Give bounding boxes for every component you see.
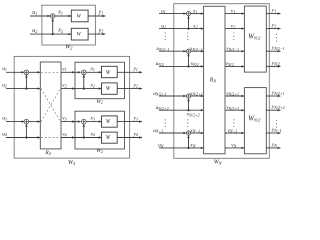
wire v3: R4 to sub-box [61,121,75,123]
wire row 6 up to summer of WN [188,98,190,110]
svg-text:y2: y2 [133,82,138,88]
svg-text:vN/2−1: vN/2−1 [226,46,239,52]
svg-text:vN−1: vN−1 [228,128,238,134]
wire u4 input of WN [159,65,204,67]
vertical dots column v upper [233,32,234,40]
svg-text:W: W [77,14,82,20]
svg-text:R4: R4 [44,150,50,156]
block RN permutation box [204,6,225,154]
svg-text:W: W [106,119,111,125]
wire y1 output of W4 [117,71,142,73]
svg-text:WN/2: WN/2 [248,33,261,41]
wire y3 output of WN [266,50,280,52]
svg-text:xN/2−1: xN/2−1 [189,46,203,52]
wire x1: summer to RN [191,13,204,15]
svg-text:uN/2+1: uN/2+1 [153,91,166,97]
wire u7 input of WN [159,132,186,134]
svg-text:yN/2: yN/2 [271,60,280,66]
svg-text:y3: y3 [133,115,138,121]
summer on row 7 of WN [186,131,190,135]
block W2 outer box [42,5,96,45]
wire y1 output [88,15,105,17]
vertical dots column y upper [276,34,277,42]
wire v1 to summer S3 [75,71,81,73]
wire row 8 up to summer of WN [188,135,190,148]
block W (lower) of W2 [71,28,88,40]
wire v3 to summer S4 [75,121,81,123]
wire x1 to W box [86,71,102,73]
svg-text:u2: u2 [161,23,166,29]
node junction u2 of W4 [25,88,27,90]
block W box 2 of W4 [102,83,118,94]
svg-text:y1: y1 [98,10,104,16]
block W2 sub-box upper of W4 [75,62,125,98]
svg-text:yN: yN [271,142,277,148]
wire y6 output of WN [266,109,280,111]
svg-text:v2: v2 [62,83,66,89]
svg-text:v4: v4 [62,132,66,138]
block W box 3 of W4 [102,116,118,127]
svg-text:x1: x1 [57,10,63,16]
block WN outer box [174,4,269,159]
svg-text:W4: W4 [68,160,75,166]
wire v1: RN to WN/2 box [225,13,244,15]
summer S1 of W2 [50,14,55,19]
wire v2: RN to WN/2 box [225,28,244,30]
block W box 1 of W4 [102,66,118,77]
svg-text:u1: u1 [32,10,37,16]
node junction on u2 [52,33,54,35]
wire u3 input of W4 [6,121,24,123]
wire u6 input of WN [159,109,204,111]
svg-text:xN: xN [189,143,195,149]
wire v2: R4 to W box 2 [61,88,102,90]
summer on row 1 of WN [186,12,190,16]
wire row 2 up to summer of WN [188,16,190,29]
wire summer S2 to R4 row3 [29,121,41,123]
dashed pass-through row1 in R4 [41,71,61,73]
svg-text:W2: W2 [96,148,103,154]
wire u4 input of W4 [6,137,40,139]
svg-text:v1: v1 [231,8,235,14]
wire u2 input of WN [159,28,204,30]
wire u2 input of W4 [6,88,40,90]
svg-text:u1: u1 [2,66,7,72]
dashed pass-through row4 in R4 [41,137,61,139]
svg-text:y4: y4 [133,131,138,137]
wire y2 output [88,33,105,35]
block W (upper) of W2 [71,10,88,22]
svg-text:v2: v2 [231,23,235,29]
wire y3 output of W4 [117,121,142,123]
summer S2 of W4 [24,119,29,124]
vertical dots column v lower [233,119,234,127]
wire y7 output of WN [266,132,280,134]
vertical dots column u upper [165,32,166,40]
svg-text:W: W [106,86,111,92]
svg-text:RN: RN [209,78,217,84]
svg-text:vN/2: vN/2 [226,61,234,67]
wire u1 input of W4 [6,71,24,73]
block WN/2 lower box [244,88,266,154]
wire u2 input [30,33,71,35]
svg-text:x2: x2 [57,28,63,34]
svg-text:x1: x1 [90,66,95,72]
wire v7: RN to WN/2 box [225,132,244,134]
wire u2 up to summer S1 [52,19,54,34]
svg-text:W: W [106,70,111,76]
wire x1: summer to W box [55,15,71,17]
wire y8 output of WN [266,147,280,149]
svg-text:W2: W2 [65,45,72,51]
node junction row 8 of WN [187,147,189,149]
svg-text:u1: u1 [161,8,166,14]
svg-text:vN/2+2: vN/2+2 [226,105,239,111]
wire v1: R4 to sub-box [61,71,75,73]
summer S4 inner lower of W4 [82,119,87,124]
wire u5 input of WN [159,95,186,97]
svg-text:yN/2−1: yN/2−1 [271,45,285,51]
wire row 4 up to summer of WN [188,54,190,67]
svg-text:xN/2+2: xN/2+2 [186,112,200,118]
svg-text:vN: vN [231,143,236,149]
dashed cross row3-row2 in R4 [41,89,61,122]
block R4 permutation box [40,62,61,149]
svg-text:x4: x4 [90,131,95,137]
svg-text:W2: W2 [96,99,103,105]
svg-text:yN/2+2: yN/2+2 [271,104,285,110]
wire u3 input of WN [159,50,186,52]
wire y4 output of WN [266,65,280,67]
svg-text:uN: uN [158,143,164,149]
svg-text:x2: x2 [192,23,197,29]
svg-text:v3: v3 [62,116,66,122]
summer on row 3 of WN [186,49,190,53]
wire v5: RN to WN/2 box [225,95,244,97]
wire u1 input of WN [159,13,186,15]
wire x3 to W box [86,121,102,123]
svg-text:x2: x2 [90,82,95,88]
svg-text:WN/2: WN/2 [248,114,261,122]
vertical dots column u lower [165,119,166,127]
svg-text:u4: u4 [2,131,7,137]
wire v6: RN to WN/2 box [225,109,244,111]
wire y2 output of W4 [117,88,142,90]
block W box 4 of W4 [102,132,118,143]
wire x3: summer to RN [191,50,204,52]
svg-text:xN/2: xN/2 [190,61,199,67]
wire summer to R4 row1 [29,71,41,73]
wire v4 up to summer S4 [83,124,85,138]
svg-text:xN/2+1: xN/2+1 [189,91,203,97]
svg-text:uN/2−1: uN/2−1 [156,46,169,52]
wire x5: summer to RN [191,95,204,97]
wire y4 output of W4 [117,137,142,139]
wire u1 input [30,15,51,17]
svg-text:yN−1: yN−1 [271,127,282,133]
svg-text:u3: u3 [2,115,7,121]
wire u4 up to summer S2 of W4 [25,124,27,138]
block W4 outer box [14,56,129,158]
svg-text:x1: x1 [192,8,197,14]
svg-text:x3: x3 [90,115,95,121]
wire v3: RN to WN/2 box [225,50,244,52]
block W2 sub-box lower of W4 [75,111,125,149]
node junction v2 [83,88,85,90]
svg-text:W: W [77,32,82,38]
wire v4: RN to WN/2 box [225,65,244,67]
node junction row 2 of WN [187,28,189,30]
node junction row 6 of WN [187,109,189,111]
summer on row 5 of WN [186,94,190,98]
summer S1 of W4 [24,70,29,75]
block WN/2 upper box [244,6,266,72]
wire x7: summer to RN [191,132,204,134]
svg-text:y2: y2 [271,23,276,29]
wire y5 output of WN [266,95,280,97]
svg-text:WN: WN [214,160,222,166]
wire v2 up to summer S3 [83,75,85,89]
svg-text:W: W [106,135,111,141]
svg-text:y1: y1 [133,66,138,72]
wire u8 input of WN [159,147,204,149]
svg-text:u2: u2 [2,82,7,88]
wire y1 output of WN [266,13,280,15]
wire v4: R4 to W box 4 [61,137,102,139]
svg-text:uN−1: uN−1 [153,128,163,134]
svg-text:v1: v1 [62,66,66,72]
svg-text:y2: y2 [98,28,104,34]
svg-text:u2: u2 [32,28,37,34]
summer S3 inner upper of W4 [82,70,87,75]
svg-text:uN/2: uN/2 [156,61,164,67]
vertical dots column x lower [187,119,188,127]
node junction u4 of W4 [25,136,27,138]
wire u2 up to summer S1 of W4 [25,75,27,89]
wire v8: RN to WN/2 box [225,147,244,149]
node junction v4 [83,136,85,138]
svg-text:uN/2+2: uN/2+2 [156,105,169,111]
svg-text:xN−1: xN−1 [189,128,200,134]
svg-text:vN/2+1: vN/2+1 [226,91,239,97]
node junction row 4 of WN [187,65,189,67]
vertical dots column y lower [276,120,277,128]
vertical dots column x upper [187,32,188,40]
dashed cross row2-row3 in R4 [41,89,61,122]
svg-text:yN/2+1: yN/2+1 [271,90,285,96]
svg-text:y1: y1 [271,8,276,14]
wire y2 output of WN [266,28,280,30]
